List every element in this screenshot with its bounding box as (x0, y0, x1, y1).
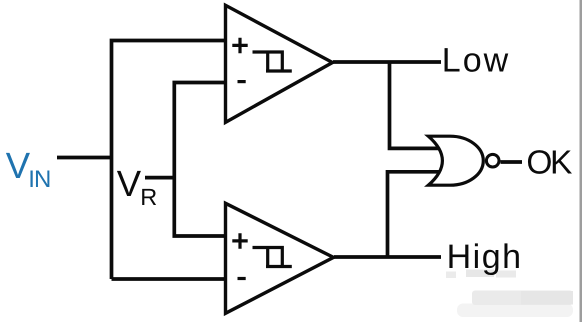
svg-text:V: V (6, 145, 31, 186)
svg-text:IN: IN (28, 166, 50, 193)
svg-text:High: High (447, 238, 523, 276)
svg-text:OK: OK (526, 145, 572, 182)
svg-text:Low: Low (442, 42, 510, 80)
svg-text:V: V (117, 163, 142, 204)
svg-text:R: R (140, 184, 157, 210)
